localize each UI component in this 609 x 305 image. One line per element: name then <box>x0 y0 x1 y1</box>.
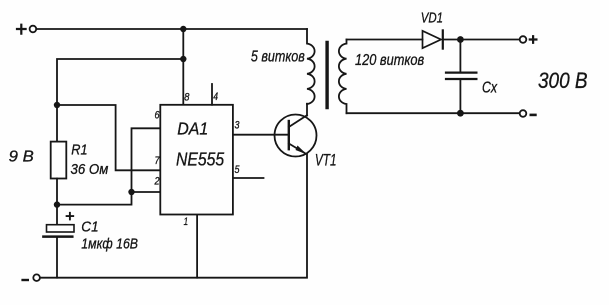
svg-text:2: 2 <box>154 176 160 188</box>
svg-text:DA1: DA1 <box>177 118 208 138</box>
svg-text:1: 1 <box>184 216 189 228</box>
wire pin 3 to base <box>233 134 289 136</box>
svg-text:36 Ом: 36 Ом <box>71 161 109 178</box>
wire bottom rail <box>40 154 307 278</box>
svg-text:4: 4 <box>213 91 218 103</box>
capacitor C1 top lead <box>56 205 58 225</box>
svg-text:5 витков: 5 витков <box>251 49 305 66</box>
transformer core <box>325 43 328 108</box>
svg-text:C1: C1 <box>81 218 98 235</box>
wire diode to terminal <box>443 39 520 41</box>
terminal plus output <box>520 36 537 43</box>
svg-text:3: 3 <box>235 120 240 132</box>
svg-text:7: 7 <box>155 155 161 167</box>
terminal plus input <box>17 25 36 34</box>
svg-text:9 В: 9 В <box>9 148 34 165</box>
svg-text:VT1: VT1 <box>315 151 337 169</box>
terminal minus input <box>23 274 40 281</box>
svg-text:NE555: NE555 <box>176 149 225 169</box>
node junction pin 2 <box>128 189 134 195</box>
wire pin 1 drop <box>196 215 198 278</box>
diode VD1 <box>423 30 443 48</box>
capacitor C1 minus plate <box>43 235 72 238</box>
wire top rail <box>36 28 307 30</box>
node junction R1 bottom <box>54 201 60 207</box>
transformer secondary winding 120 turns <box>339 40 347 114</box>
terminal minus output <box>520 110 536 117</box>
svg-text:1мкф 16В: 1мкф 16В <box>81 237 138 253</box>
wire secondary top to diode <box>347 39 423 41</box>
svg-text:5: 5 <box>235 164 241 176</box>
wire node to pin 7 <box>57 105 160 170</box>
svg-text:Cx: Cx <box>482 80 498 97</box>
svg-text:R1: R1 <box>71 141 87 158</box>
wire pin 2 stub <box>132 191 161 193</box>
resistor R1 <box>51 142 67 179</box>
capacitor C1 plus plate <box>47 225 75 232</box>
svg-text:120 витков: 120 витков <box>355 52 424 69</box>
wire secondary bottom rail <box>347 112 520 114</box>
wire node to pin6/pin2 riser <box>57 128 160 204</box>
wire vcc drop to pin 8 <box>182 29 184 105</box>
node junction vcc branch <box>180 56 186 62</box>
pin 4 stub <box>211 84 213 105</box>
wire branch to R1 top <box>57 59 183 105</box>
node junction R1 top <box>54 102 60 108</box>
wire R1 lead top <box>56 105 58 142</box>
capacitor C1 bottom lead <box>56 238 58 278</box>
svg-text:8: 8 <box>184 92 189 104</box>
capacitor C1 polarity plus <box>67 213 74 220</box>
transistor VT1 <box>275 115 317 157</box>
svg-text:6: 6 <box>155 110 160 122</box>
node junction Cx top <box>457 36 464 43</box>
capacitor Cx bottom lead <box>459 80 461 114</box>
node junction top rail <box>180 26 186 32</box>
node junction Cx bottom <box>457 110 464 117</box>
op-amp timer DA1 body <box>160 105 233 215</box>
pin 5 stub <box>233 177 264 179</box>
capacitor Cx top lead <box>459 40 461 73</box>
capacitor Cx plates <box>446 73 476 79</box>
svg-text:300 В: 300 В <box>538 68 588 93</box>
wire collector up <box>306 104 308 116</box>
svg-text:VD1: VD1 <box>421 9 443 26</box>
transformer primary winding 5 turns <box>307 29 315 104</box>
wire R1 lead bottom <box>56 179 58 205</box>
